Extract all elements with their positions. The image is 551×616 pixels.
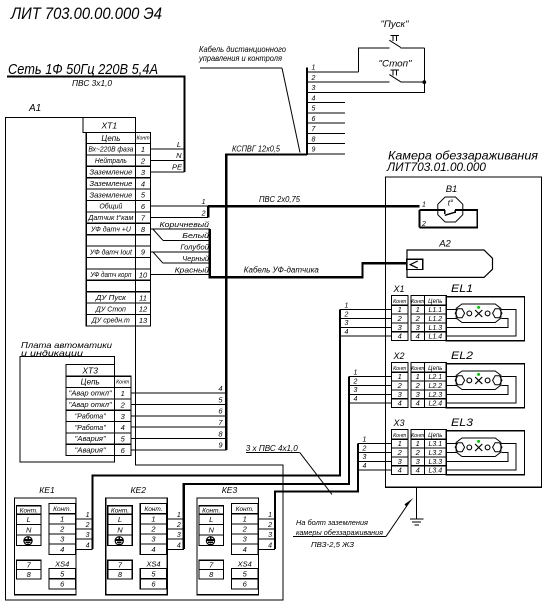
svg-text:3: 3 [398, 390, 403, 399]
wire remote pin 1 [307, 65, 358, 72]
svg-text:2: 2 [397, 448, 403, 457]
cable УФ-датчика label [244, 266, 320, 275]
svg-text:Конт: Конт [411, 433, 425, 439]
wire XT3 pin 1 to cable wire 4 [131, 384, 226, 393]
svg-text:УФ датч Iout: УФ датч Iout [89, 248, 133, 256]
svg-text:А1: А1 [28, 103, 41, 114]
svg-text:2: 2 [353, 378, 358, 385]
svg-text:2: 2 [344, 311, 349, 318]
svg-text:4: 4 [416, 332, 420, 341]
lamp EL2 UV tube [455, 371, 502, 390]
ballast KE3 [197, 485, 259, 595]
device A1 enclosure [6, 103, 284, 600]
lamp EL1 terminals table [411, 283, 473, 341]
svg-text:1: 1 [416, 439, 420, 448]
svg-text:1: 1 [416, 305, 420, 314]
svg-text:3: 3 [121, 412, 126, 421]
svg-text:t°: t° [448, 199, 454, 208]
svg-text:L1.3: L1.3 [428, 325, 442, 332]
wire Белый (XT1 pin 8) [153, 229, 210, 240]
svg-text:L3.1: L3.1 [428, 441, 442, 448]
svg-text:управления и контроля: управления и контроля [198, 54, 283, 63]
board Плата автоматики и индикации [20, 340, 115, 462]
wire remote pin 7 [307, 126, 345, 133]
svg-text:2: 2 [311, 75, 316, 82]
svg-text:XS4: XS4 [54, 560, 69, 569]
svg-text:4: 4 [218, 384, 222, 393]
svg-text:N: N [26, 526, 32, 535]
wire X2 contact 2 [349, 378, 392, 385]
svg-text:2: 2 [397, 314, 403, 323]
svg-text:4: 4 [268, 542, 272, 549]
svg-text:2: 2 [397, 381, 403, 390]
svg-text:9: 9 [218, 441, 223, 450]
svg-text:1: 1 [141, 145, 145, 154]
ballast KE2 [106, 485, 168, 595]
wire XT3 pin 4 to cable wire 7 [131, 418, 226, 427]
wire EL1 pin 2 [446, 317, 457, 319]
svg-text:8: 8 [218, 429, 223, 438]
wire EL2 pin 1 [446, 376, 457, 378]
svg-text:4: 4 [416, 399, 420, 408]
svg-text:5: 5 [243, 569, 248, 578]
svg-text:1: 1 [177, 512, 181, 519]
svg-text:4: 4 [345, 329, 349, 336]
wire remote pin 4 [307, 95, 345, 102]
svg-text:"Пуск": "Пуск" [381, 19, 410, 29]
svg-text:1: 1 [121, 389, 125, 398]
svg-text:КЕ2: КЕ2 [131, 485, 147, 495]
svg-text:ДУ Пуск: ДУ Пуск [95, 295, 127, 302]
svg-text:3: 3 [416, 457, 421, 466]
svg-text:1: 1 [398, 439, 402, 448]
svg-text:1: 1 [268, 512, 272, 519]
svg-text:Конт: Конт [393, 433, 407, 439]
svg-text:6: 6 [141, 202, 146, 211]
svg-text:ЛИТ703.01.00.000: ЛИТ703.01.00.000 [386, 160, 486, 174]
indicator dot EL2 [477, 373, 480, 376]
svg-text:5: 5 [141, 191, 146, 200]
svg-text:3: 3 [151, 535, 156, 544]
wire EL2 pin 4 [446, 377, 516, 404]
svg-text:7: 7 [312, 126, 317, 133]
svg-text:1: 1 [60, 514, 64, 523]
svg-text:11: 11 [139, 293, 147, 302]
svg-text:2: 2 [415, 381, 421, 390]
svg-text:1: 1 [151, 514, 155, 523]
svg-text:Конт: Конт [393, 299, 407, 305]
wire KE1 contact 1 [76, 512, 93, 519]
svg-text:"Работа": "Работа" [75, 424, 107, 432]
svg-text:1: 1 [422, 202, 426, 209]
svg-text:Х2: Х2 [392, 351, 404, 361]
svg-text:1: 1 [202, 199, 206, 206]
connector X2 [392, 351, 409, 407]
wire EL2 pin 2 [446, 384, 457, 386]
svg-text:"Стоп": "Стоп" [379, 59, 413, 69]
svg-text:9: 9 [141, 248, 146, 257]
wire X3 contact 2 [358, 445, 392, 452]
svg-text:4: 4 [121, 423, 125, 432]
svg-text:4: 4 [60, 545, 64, 554]
cable КСПВГ 12х0,5 label [232, 145, 280, 154]
wire PE to XT1 pin 3 [151, 163, 185, 172]
svg-text:2: 2 [120, 400, 126, 409]
cable КСПВГ 12х0,5 [226, 155, 307, 450]
svg-text:1: 1 [243, 514, 247, 523]
svg-text:L1.4: L1.4 [428, 334, 442, 341]
svg-text:"Авария": "Авария" [75, 447, 107, 454]
svg-text:10: 10 [139, 271, 148, 280]
svg-text:L2.1: L2.1 [428, 374, 442, 381]
svg-text:3: 3 [345, 320, 349, 327]
svg-text:В1: В1 [446, 184, 458, 195]
svg-text:N: N [117, 526, 123, 535]
wire remote pin 6 [307, 116, 345, 123]
svg-text:ДУ средн.т: ДУ средн.т [91, 317, 130, 325]
svg-text:2: 2 [242, 525, 248, 534]
svg-text:8: 8 [118, 570, 123, 579]
svg-text:4: 4 [354, 396, 358, 403]
chamber Камера обеззараживания label [386, 149, 539, 175]
wire KE2 contact 3 [167, 532, 184, 539]
svg-text:1: 1 [416, 372, 420, 381]
svg-text:Конт: Конт [411, 299, 425, 305]
svg-text:3: 3 [416, 323, 421, 332]
svg-text:Х1: Х1 [392, 284, 404, 294]
svg-text:3: 3 [243, 535, 248, 544]
svg-text:4: 4 [177, 542, 181, 549]
wire X3 contact 1 [358, 436, 392, 443]
ballast KE1 [15, 485, 77, 595]
svg-text:Общий: Общий [99, 203, 122, 211]
svg-text:КСПВГ 12х0,5: КСПВГ 12х0,5 [232, 145, 280, 154]
wire XT3 pin 2 to cable wire 5 [131, 395, 226, 404]
wire L to XT1 pin 1 [151, 140, 185, 149]
svg-text:"Работа": "Работа" [75, 412, 107, 420]
sensor B1 body [438, 197, 463, 222]
wire Коричневый (XT1 pin 8) [151, 220, 210, 229]
lamp EL3 enclosure [446, 431, 524, 475]
svg-text:2: 2 [150, 525, 156, 534]
svg-text:XS4: XS4 [145, 560, 160, 569]
svg-text:6: 6 [312, 116, 316, 123]
ground bolt label [293, 498, 414, 549]
svg-text:КЕ1: КЕ1 [39, 485, 55, 495]
svg-text:4: 4 [363, 463, 367, 470]
svg-text:EL3: EL3 [451, 417, 474, 429]
svg-text:2: 2 [201, 210, 206, 217]
svg-text:3: 3 [354, 387, 358, 394]
wire X2 contact 4 [349, 396, 392, 403]
svg-text:"Авар откл": "Авар откл" [69, 402, 113, 409]
svg-text:Цепь: Цепь [428, 433, 442, 439]
svg-text:Конт: Конт [136, 136, 150, 142]
remote connector bracket [306, 68, 308, 156]
svg-text:6: 6 [121, 446, 126, 455]
ground symbol [410, 487, 424, 525]
cable ПВС 4х1,0 #1 [93, 310, 341, 550]
svg-text:Цепь: Цепь [428, 299, 442, 305]
svg-text:2: 2 [415, 314, 421, 323]
wire X1 contact 3 [340, 320, 392, 327]
svg-text:6: 6 [218, 407, 223, 416]
wire KE1 contact 2 [76, 522, 93, 529]
svg-text:3: 3 [86, 532, 90, 539]
svg-text:5: 5 [151, 569, 156, 578]
cable split at B1 [418, 210, 420, 228]
svg-text:L2.4: L2.4 [428, 401, 442, 408]
svg-text:1: 1 [312, 65, 316, 72]
svg-text:Датчик t°кам: Датчик t°кам [87, 214, 133, 222]
connector X1 [392, 284, 409, 340]
wire XT1 pin 7 (wire 2) [151, 210, 209, 217]
svg-text:Заземление: Заземление [89, 192, 132, 199]
svg-text:6: 6 [151, 580, 156, 589]
wire KE1 contact 4 [76, 542, 93, 549]
svg-text:Цепь: Цепь [81, 378, 100, 387]
wire Голубой (XT1 pin 9) [151, 243, 210, 252]
svg-text:L3.2: L3.2 [428, 450, 442, 457]
svg-text:3: 3 [363, 454, 367, 461]
svg-text:2: 2 [59, 525, 65, 534]
svg-text:Вх~220В фаза: Вх~220В фаза [88, 147, 133, 154]
label Кабель дистанционного управления и контроля [198, 45, 300, 153]
wire X1 contact 4 [340, 329, 392, 336]
svg-text:2: 2 [415, 448, 421, 457]
sensor A2 label [438, 239, 451, 250]
cable ПВС 4х1,0 #3 [275, 444, 358, 550]
svg-text:Кабель дистанционного: Кабель дистанционного [199, 45, 287, 54]
svg-text:Конт.: Конт. [236, 506, 254, 513]
cable ПВС 2х0,75 label [259, 195, 301, 204]
svg-text:3: 3 [268, 532, 272, 539]
terminal block XT1 [83, 118, 151, 326]
chamber enclosure [386, 177, 542, 487]
wire remote pin 8 [307, 136, 345, 143]
wire EL1 pin 4 [446, 310, 516, 337]
cable УФ-датчика [210, 229, 407, 277]
svg-text:Белый: Белый [182, 231, 210, 240]
svg-text:L1.2: L1.2 [428, 316, 442, 323]
svg-text:Конт.: Конт. [111, 507, 129, 514]
wire B1 pin 2 loop [420, 210, 478, 228]
wire EL3 pin 4 [446, 444, 516, 471]
svg-text:2: 2 [421, 221, 426, 228]
indicator dot EL1 [477, 306, 480, 309]
lamp EL3 UV tube [455, 438, 502, 457]
svg-text:L3.4: L3.4 [428, 468, 442, 475]
svg-text:L: L [209, 515, 213, 524]
svg-text:Красный: Красный [175, 265, 210, 274]
svg-text:Конт.: Конт. [144, 506, 162, 513]
svg-text:L2.3: L2.3 [428, 392, 442, 399]
svg-text:ХТ3: ХТ3 [81, 366, 98, 376]
svg-text:1: 1 [345, 302, 349, 309]
svg-text:7: 7 [209, 561, 214, 570]
cable group label 3 х ПВС 4х1,0 [246, 444, 332, 495]
svg-text:PE: PE [172, 163, 183, 172]
svg-text:XS4: XS4 [237, 560, 252, 569]
wire KE3 contact 3 [258, 532, 275, 539]
svg-text:ПВС 2х0,75: ПВС 2х0,75 [259, 195, 301, 204]
svg-text:1: 1 [354, 369, 358, 376]
wire KE2 contact 1 [167, 512, 184, 519]
svg-text:2: 2 [267, 522, 272, 529]
wire remote pin 5 [307, 106, 345, 113]
junction dot [422, 80, 426, 84]
svg-text:4: 4 [398, 466, 402, 475]
svg-text:L2.2: L2.2 [428, 383, 442, 390]
lamp EL2 terminals table [411, 350, 473, 408]
wire KE3 contact 1 [258, 512, 275, 519]
wire X1 contact 1 [340, 302, 392, 309]
svg-text:3: 3 [398, 323, 403, 332]
wire KE2 contact 2 [167, 522, 184, 529]
svg-text:ПВС 3х1,0: ПВС 3х1,0 [72, 79, 113, 88]
svg-text:2: 2 [85, 522, 90, 529]
svg-text:2: 2 [176, 522, 181, 529]
svg-text:ХТ1: ХТ1 [101, 121, 118, 131]
svg-text:Конт: Конт [393, 366, 407, 372]
wire EL3 pin 3 [446, 452, 508, 461]
svg-text:3: 3 [398, 457, 403, 466]
wire buttons common [423, 48, 425, 92]
svg-text:N: N [208, 526, 214, 535]
svg-text:4: 4 [141, 179, 145, 188]
svg-text:L3.3: L3.3 [428, 459, 442, 466]
lamp EL1 enclosure [446, 297, 524, 341]
wire X3 contact 4 [358, 463, 392, 470]
svg-text:Цепь: Цепь [101, 134, 120, 143]
wire XT1 pin 6 (wire 1) [151, 199, 209, 206]
svg-text:6: 6 [60, 580, 65, 589]
wire X3 contact 3 [358, 454, 392, 461]
wire X2 contact 3 [349, 387, 392, 394]
svg-text:4: 4 [86, 542, 90, 549]
wire XT3 pin 5 to cable wire 8 [131, 429, 226, 438]
wire EL3 pin 1 [446, 443, 457, 445]
svg-text:5: 5 [218, 395, 223, 404]
svg-text:8: 8 [312, 136, 316, 143]
wire EL3 pin 2 [446, 451, 457, 453]
svg-text:7: 7 [141, 214, 146, 223]
svg-text:1: 1 [398, 305, 402, 314]
svg-text:13: 13 [139, 316, 148, 325]
svg-text:1: 1 [363, 436, 367, 443]
svg-text:4: 4 [243, 545, 247, 554]
svg-text:3: 3 [177, 532, 181, 539]
svg-text:ДУ Стоп: ДУ Стоп [95, 306, 126, 313]
svg-text:Заземление: Заземление [89, 170, 132, 177]
svg-text:3: 3 [312, 85, 316, 92]
svg-text:ПВЗ-2,5 ЖЗ: ПВЗ-2,5 ЖЗ [311, 540, 354, 549]
lamp EL2 enclosure [446, 364, 524, 408]
svg-text:"Авария": "Авария" [75, 436, 107, 443]
cable ПВС 3х1,0 label [72, 79, 113, 88]
svg-text:6: 6 [243, 580, 248, 589]
wire EL2 pin 3 [446, 385, 508, 394]
svg-text:9: 9 [312, 147, 316, 154]
svg-text:"Авар откл": "Авар откл" [69, 391, 113, 398]
wire mains cable ПВС 3х1,0 [7, 77, 185, 172]
svg-text:Кабель УФ-датчика: Кабель УФ-датчика [244, 266, 320, 275]
svg-text:3: 3 [141, 168, 146, 177]
net Сеть 1Ф 50Гц 220В 5,4А label [8, 62, 158, 78]
svg-text:5: 5 [312, 106, 316, 113]
wire Красный (XT1 pin 10) [151, 265, 210, 274]
svg-text:Конт.: Конт. [202, 507, 220, 514]
wire B1 pin 1 [420, 202, 445, 211]
svg-text:УФ датч +U: УФ датч +U [90, 226, 132, 234]
svg-text:8: 8 [209, 570, 214, 579]
terminal block XT3 [66, 365, 131, 456]
wire KE1 contact 3 [76, 532, 93, 539]
wire XT3 pin 3 to cable wire 6 [131, 407, 226, 416]
svg-text:УФ датч корп: УФ датч корп [90, 271, 132, 279]
svg-text:L: L [118, 515, 122, 524]
wire remote pin 3 [307, 85, 425, 92]
wire remote pin 2 [307, 75, 390, 82]
svg-text:3 х ПВС 4х1,0: 3 х ПВС 4х1,0 [246, 444, 299, 453]
svg-text:7: 7 [218, 418, 223, 427]
svg-text:Конт.: Конт. [53, 506, 71, 513]
svg-text:3: 3 [416, 390, 421, 399]
svg-text:4: 4 [398, 399, 402, 408]
svg-text:Черный: Черный [182, 254, 210, 263]
svg-text:2: 2 [362, 445, 367, 452]
svg-text:А2: А2 [438, 239, 451, 250]
svg-text:Конт: Конт [411, 366, 425, 372]
svg-text:Конт: Конт [116, 380, 130, 386]
svg-text:4: 4 [312, 95, 316, 102]
svg-text:7: 7 [118, 561, 123, 570]
svg-text:12: 12 [139, 305, 148, 314]
svg-text:На болт заземления: На болт заземления [296, 518, 368, 527]
sensor B1 label [446, 184, 458, 195]
cable ПВС 2х0,75 [208, 206, 419, 217]
svg-text:ЛИТ 703.00.00.000 Э4: ЛИТ 703.00.00.000 Э4 [10, 5, 162, 23]
sensor A2 body [407, 250, 493, 277]
svg-text:8: 8 [27, 570, 32, 579]
svg-text:2: 2 [140, 157, 146, 166]
wire KE3 contact 4 [258, 542, 275, 549]
push-button Стоп [379, 59, 425, 83]
svg-text:L1.1: L1.1 [428, 307, 442, 314]
svg-text:L: L [27, 515, 31, 524]
wire X1 contact 2 [340, 311, 392, 318]
svg-text:Нейтраль: Нейтраль [95, 157, 127, 165]
svg-text:1: 1 [86, 512, 90, 519]
svg-text:EL1: EL1 [451, 283, 473, 295]
connector X3 [392, 418, 409, 474]
wire XT3 pin 6 to cable wire 9 [131, 441, 226, 450]
svg-text:5: 5 [121, 435, 126, 444]
svg-text:камеры обеззараживания: камеры обеззараживания [296, 528, 383, 537]
svg-text:8: 8 [141, 225, 146, 234]
svg-text:1: 1 [398, 372, 402, 381]
svg-text:Х3: Х3 [392, 418, 404, 428]
wire KE2 contact 4 [167, 542, 184, 549]
wire Черный (XT1 pin 9) [153, 252, 210, 263]
wire EL1 pin 3 [446, 318, 508, 327]
cable ПВС 4х1,0 #2 [184, 377, 349, 550]
svg-text:Цепь: Цепь [428, 366, 442, 372]
wire X2 contact 1 [349, 369, 392, 376]
lamp EL3 terminals table [411, 417, 474, 475]
svg-text:КЕ3: КЕ3 [222, 485, 238, 495]
wire remote pin 9 [307, 147, 345, 154]
